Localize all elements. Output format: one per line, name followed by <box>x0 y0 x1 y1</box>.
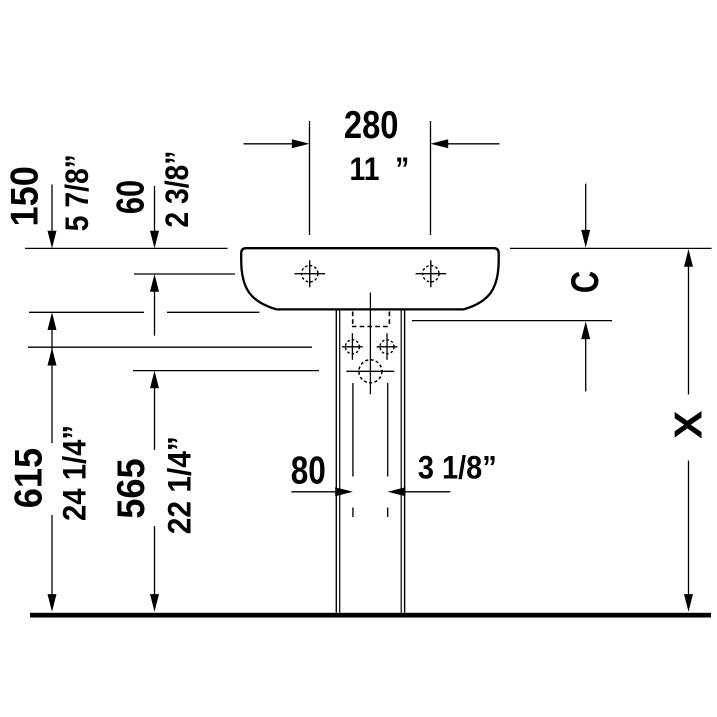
drain center line <box>369 293 371 395</box>
280-dim arrow left <box>244 139 310 148</box>
fixing hole right: crosshair <box>377 333 398 360</box>
label 280 <box>344 104 399 147</box>
svg-text:615: 615 <box>6 448 49 508</box>
label 2 3/8 inch (rotated) <box>159 151 195 228</box>
reference line basin-top right segment <box>510 247 712 249</box>
drain hole: horizontal crosshair <box>346 370 394 372</box>
pedestal left inner edge <box>339 311 341 613</box>
floor line <box>30 613 711 618</box>
svg-text:2 3/8”: 2 3/8” <box>159 151 195 228</box>
overflow dashed box <box>352 312 390 327</box>
label C (rotated) <box>564 271 607 293</box>
reference line C-bottom <box>412 320 612 322</box>
reference line 60mm-below <box>134 273 235 275</box>
pedestal left outer edge <box>335 311 337 613</box>
reference line 615-level <box>28 346 312 348</box>
label 5 7/8 inch (rotated) <box>59 154 95 231</box>
80-dim arrow left <box>291 487 353 496</box>
faucet hole left: crosshair <box>295 260 326 287</box>
faucet hole right: dashed circle <box>423 266 439 282</box>
svg-text:24 1/4”: 24 1/4” <box>56 425 93 521</box>
svg-text:11 ”: 11 ” <box>350 151 410 187</box>
basin outline <box>241 248 499 309</box>
svg-text:565: 565 <box>109 458 152 518</box>
svg-text:3 1/8”: 3 1/8” <box>418 449 497 486</box>
svg-text:X: X <box>666 411 710 439</box>
reference line basin-bottom left part <box>29 311 144 313</box>
60-dim bottom arrow (x=154.5) <box>150 274 159 336</box>
565-dim bottom segment with floor arrow (x=154.5) <box>150 526 159 612</box>
60-dim top arrow (x=154.5) <box>150 186 159 248</box>
fixing hole right: dashed circle <box>380 340 394 354</box>
reference line 565-level <box>133 370 319 372</box>
reference line basin-bottom right part <box>167 311 259 313</box>
label 22 1/4 inch (rotated) <box>162 436 198 534</box>
280-dim arrow right <box>431 139 500 148</box>
pedestal right outer edge <box>404 311 406 613</box>
X-dim top arrow (x=688.5) <box>684 249 693 394</box>
label 565 (rotated) <box>109 458 152 518</box>
X-dim bottom segment with floor arrow (x=688.5) <box>684 461 693 612</box>
reference line basin-top left segment <box>25 247 228 249</box>
label 60 (rotated) <box>109 180 152 214</box>
svg-text:80: 80 <box>291 450 326 493</box>
drain hole: dashed circle <box>359 360 382 383</box>
label X (rotated) <box>666 411 710 439</box>
C-dim bottom arrow (x=585.7) <box>581 321 590 391</box>
80-dim extension line left <box>352 383 354 517</box>
svg-text:C: C <box>564 271 607 293</box>
svg-text:60: 60 <box>109 180 152 214</box>
fixing hole left: crosshair <box>342 333 363 360</box>
80-dim extension line right <box>387 383 389 517</box>
svg-text:22 1/4”: 22 1/4” <box>162 436 198 534</box>
C-dim top arrow (x=585.7) <box>581 184 590 248</box>
fixing hole left: dashed circle <box>345 340 359 354</box>
svg-text:150: 150 <box>2 166 45 226</box>
615-dim bottom segment with floor arrow (x=52) <box>48 515 57 612</box>
pedestal right inner edge <box>400 311 402 613</box>
280-dim line left vertical <box>309 121 311 235</box>
615-dim top arrow (x=52) <box>48 348 57 443</box>
svg-text:280: 280 <box>344 104 399 147</box>
label 615 (rotated) <box>6 448 49 508</box>
label 24 1/4 inch (rotated) <box>56 425 93 521</box>
150-dim bottom arrow (x=52) <box>48 312 57 351</box>
150-dim top arrow (x=52) <box>48 185 57 249</box>
280-dim line right vertical <box>430 121 432 235</box>
faucet hole right: crosshair <box>416 260 447 287</box>
565-dim top arrow (x=154.5) <box>150 371 159 450</box>
80-dim arrow right <box>388 487 451 496</box>
label 11 inch <box>350 151 410 187</box>
svg-text:5 7/8”: 5 7/8” <box>59 154 95 231</box>
label 80 <box>291 450 326 493</box>
label 150 (rotated) <box>2 166 45 226</box>
faucet hole left: dashed circle <box>302 266 318 282</box>
label 3 1/8 inch <box>418 449 497 486</box>
